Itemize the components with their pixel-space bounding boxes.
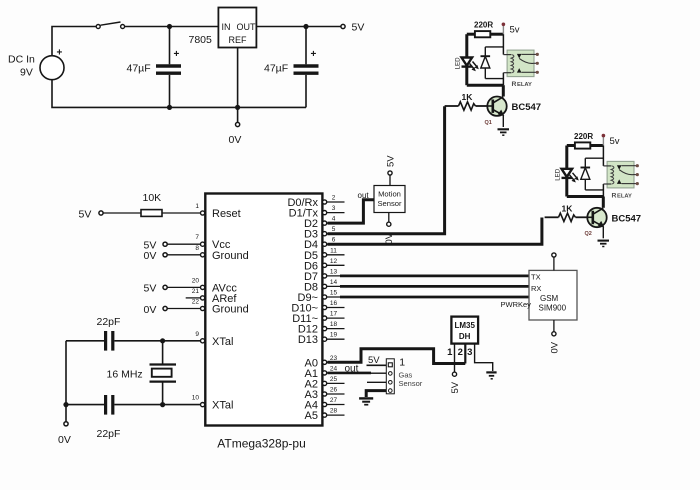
pin 19 D13 (298, 332, 345, 347)
resistor R1 10K (103, 192, 200, 216)
wire collector node (567, 184, 604, 208)
svg-text:D13: D13 (298, 334, 318, 346)
pin 18 D12 (298, 321, 345, 336)
wire (237, 48, 239, 123)
junction (303, 24, 308, 29)
svg-text:0V: 0V (549, 341, 560, 353)
svg-text:REF: REF (229, 35, 248, 45)
svg-text:R: R (612, 193, 617, 200)
wire (125, 26, 219, 28)
svg-text:Motion: Motion (378, 190, 401, 199)
svg-text:0V: 0V (144, 304, 157, 316)
pin 2 D0/Rx (287, 195, 344, 210)
svg-text:7: 7 (195, 234, 199, 241)
wire (66, 404, 104, 406)
svg-text:DC In: DC In (8, 54, 35, 66)
svg-text:2: 2 (458, 347, 463, 358)
switch S1 (96, 22, 124, 29)
junction (160, 338, 165, 343)
svg-text:2: 2 (332, 195, 336, 202)
diode D3 flyback (481, 47, 504, 79)
svg-text:23: 23 (330, 355, 338, 362)
pin 4 D2 (304, 216, 345, 231)
wire pin4 to ground (366, 391, 386, 397)
wire (65, 341, 67, 405)
svg-text:20: 20 (192, 277, 200, 284)
pin 20 AVcc (192, 277, 238, 294)
label RELAY (612, 193, 633, 200)
wire (167, 308, 200, 310)
svg-text:22pF: 22pF (97, 316, 121, 328)
terminal 0V (229, 122, 242, 146)
pin 27 A4 (305, 397, 345, 412)
diode D4 flyback (581, 158, 604, 190)
wire (256, 26, 340, 28)
regulator U1 7805 (189, 8, 257, 48)
label RELAY (512, 81, 533, 88)
supply 5v (502, 23, 520, 36)
terminal 0V (144, 250, 168, 262)
svg-text:+: + (57, 48, 63, 59)
relay K2 (603, 161, 639, 188)
svg-text:1: 1 (195, 203, 199, 210)
pin 9 XTal (195, 331, 233, 348)
pin 5 D3 (304, 226, 345, 241)
source V1 DC In 9V (8, 48, 64, 80)
junction (235, 105, 240, 110)
svg-text:4: 4 (332, 216, 336, 223)
svg-text:0V: 0V (384, 232, 395, 244)
svg-text:18: 18 (330, 321, 338, 328)
label BC547 (612, 213, 642, 224)
svg-text:Sensor: Sensor (377, 199, 402, 208)
svg-text:5V: 5V (352, 22, 365, 34)
svg-text:26: 26 (330, 387, 338, 394)
svg-text:A5: A5 (305, 410, 318, 422)
svg-text:220R: 220R (474, 21, 493, 30)
supply 5v (602, 134, 620, 147)
relay K1 (503, 50, 539, 77)
svg-text:BC547: BC547 (512, 102, 542, 113)
label 5V (367, 355, 387, 366)
wire (66, 340, 104, 342)
pin 24 A1 (305, 365, 345, 380)
svg-text:ELAY: ELAY (517, 82, 532, 88)
label out (345, 363, 359, 374)
terminal 0V GSM (549, 320, 560, 354)
pin 11 D5 (304, 247, 345, 261)
sensor module motion sensor (374, 186, 405, 213)
wire pin3 stub (367, 381, 386, 383)
label BC547 (512, 102, 542, 113)
wire D8 to GSM RX (340, 285, 529, 288)
svg-text:PWRKey: PWRKey (501, 300, 532, 309)
svg-text:47µF: 47µF (264, 63, 288, 75)
wire (167, 254, 200, 256)
svg-text:+: + (174, 49, 180, 60)
wire A0 to LM35 Vout (328, 349, 466, 364)
svg-text:19: 19 (330, 332, 338, 339)
svg-text:13: 13 (330, 268, 338, 275)
svg-text:0V: 0V (229, 134, 242, 146)
svg-text:16: 16 (330, 300, 338, 307)
capacitor C1 47uF (127, 27, 182, 108)
svg-text:9V: 9V (20, 67, 33, 79)
svg-text:Reset: Reset (212, 208, 241, 220)
terminal 0V motion (384, 213, 395, 245)
svg-text:16 MHz: 16 MHz (107, 369, 143, 381)
LED D2 (555, 146, 579, 197)
svg-text:BC547: BC547 (612, 213, 642, 224)
svg-text:RX: RX (531, 284, 541, 293)
svg-text:R: R (512, 81, 517, 88)
capacitor C4 22pF (97, 395, 121, 440)
terminal 5V (341, 22, 364, 34)
svg-text:10K: 10K (143, 192, 162, 204)
wire (114, 404, 200, 406)
svg-text:DH: DH (459, 332, 471, 341)
wire D9 to GSM PWRKey (340, 296, 529, 299)
pin 13 D7 (304, 268, 345, 283)
terminal 5V (144, 240, 168, 252)
wire 5v rail (502, 34, 504, 54)
svg-text:220R: 220R (574, 132, 593, 141)
svg-text:out: out (358, 191, 370, 200)
svg-text:ATmega328p-pu: ATmega328p-pu (217, 437, 306, 451)
svg-text:GSM: GSM (540, 294, 559, 303)
svg-text:0V: 0V (58, 434, 71, 446)
label Q1 (485, 120, 492, 126)
wire LM35 pin3 to ground (475, 344, 493, 371)
svg-text:5v: 5v (610, 136, 620, 147)
svg-text:+: + (311, 49, 317, 60)
svg-text:22: 22 (192, 299, 200, 306)
svg-text:LED: LED (455, 57, 462, 70)
pin 23 A0 (305, 355, 345, 370)
svg-text:27: 27 (330, 397, 338, 404)
wire (167, 243, 200, 245)
svg-text:XTal: XTal (212, 400, 233, 412)
svg-text:1K: 1K (562, 203, 574, 213)
pin 22 Ground (192, 299, 249, 316)
terminal 5V motion (385, 155, 396, 186)
label Gas Sensor (399, 371, 423, 388)
svg-text:1K: 1K (462, 92, 474, 102)
svg-text:XTal: XTal (212, 336, 233, 348)
junction (63, 402, 68, 407)
LED D1 (455, 34, 479, 85)
svg-text:10: 10 (192, 395, 200, 402)
svg-text:47µF: 47µF (127, 63, 151, 75)
svg-text:24: 24 (330, 365, 338, 372)
wire D3 to Q1 base (328, 106, 445, 234)
pin 16 D10~ (291, 300, 344, 315)
svg-text:11: 11 (330, 247, 337, 254)
pin 21 ARef (192, 288, 238, 305)
wire (167, 286, 200, 288)
ground (486, 372, 496, 378)
pin 10 XTal (192, 395, 234, 412)
terminal 0V (144, 304, 168, 316)
label Q2 (585, 231, 592, 237)
resistor R4 1K (445, 92, 488, 110)
resistor R6 1K (545, 203, 588, 221)
junction (167, 105, 172, 110)
svg-text:Q1: Q1 (485, 120, 492, 126)
svg-text:21: 21 (192, 288, 200, 295)
wire LM35 pin1 (454, 344, 456, 373)
svg-text:5V: 5V (79, 209, 92, 221)
svg-text:28: 28 (330, 408, 338, 415)
terminal 5V (79, 209, 104, 221)
svg-text:12: 12 (330, 258, 338, 265)
svg-text:17: 17 (330, 311, 338, 318)
svg-text:1: 1 (399, 356, 405, 368)
pin 6 D4 (304, 237, 345, 252)
svg-text:3: 3 (467, 347, 472, 358)
svg-text:14: 14 (330, 279, 338, 286)
wire (186, 297, 201, 299)
resistor R3 220R (467, 21, 504, 38)
module U4 GSM SIM900 (529, 270, 577, 320)
wire A1 to gas sensor (328, 372, 387, 375)
svg-text:5V: 5V (144, 283, 157, 295)
pin 17 D11~ (292, 311, 344, 326)
wire collector node (467, 73, 504, 97)
wire D4 to Q2 base (328, 218, 542, 245)
svg-text:25: 25 (330, 376, 338, 383)
svg-text:0V: 0V (144, 250, 157, 262)
wire (65, 405, 67, 422)
resistor R5 220R (567, 132, 604, 149)
wire D7 to GSM TX (340, 274, 529, 277)
svg-text:3: 3 (332, 205, 336, 212)
svg-text:IN: IN (222, 22, 231, 32)
label PWRKey (501, 300, 532, 309)
junction (167, 24, 172, 29)
svg-text:5V: 5V (385, 155, 396, 167)
junction (160, 402, 165, 407)
pin 14 D8 (304, 279, 345, 294)
pin 15 D9~ (298, 290, 345, 305)
pin 8 Ground (195, 245, 248, 262)
pin 3 D1/Tx (289, 205, 345, 220)
ground (598, 241, 610, 247)
terminal 5V LM35 (450, 372, 461, 393)
svg-text:5: 5 (332, 226, 336, 233)
svg-text:LM35: LM35 (454, 321, 475, 330)
capacitor C2 47uF (264, 27, 319, 108)
wire (52, 80, 306, 108)
terminal 0V (58, 422, 71, 446)
pin 26 A3 (305, 387, 345, 402)
pin 1 Reset (195, 203, 240, 220)
transistor Q2 BC547 (587, 208, 606, 239)
terminal GSM top (552, 253, 556, 271)
IC U2 ATmega328p-pu (205, 194, 322, 426)
wire 5v rail (602, 146, 604, 166)
pin 25 A2 (305, 376, 345, 391)
pin 28 A5 (305, 408, 345, 423)
svg-text:TX: TX (531, 272, 541, 281)
crystal X1 16 MHz (107, 341, 177, 405)
label pins 1 2 3 (447, 347, 472, 358)
label ATmega328p-pu (217, 437, 306, 451)
svg-text:SIM900: SIM900 (539, 303, 567, 312)
svg-text:7805: 7805 (189, 34, 213, 46)
pin 12 D6 (304, 258, 345, 273)
ground (498, 129, 510, 135)
wire (114, 340, 200, 342)
svg-text:Sensor: Sensor (399, 379, 423, 388)
svg-text:6: 6 (332, 237, 336, 244)
connector J1 gas sensor (386, 359, 394, 394)
svg-text:22pF: 22pF (97, 428, 121, 440)
label 1 (399, 356, 405, 368)
svg-text:15: 15 (330, 290, 338, 297)
pin 7 Vcc (195, 234, 230, 251)
wire LM35 pin2 (464, 344, 466, 364)
svg-text:9: 9 (195, 331, 199, 338)
ground (359, 398, 373, 404)
capacitor C3 22pF (97, 316, 121, 351)
svg-text:1: 1 (447, 347, 453, 358)
svg-text:5V: 5V (450, 381, 461, 393)
svg-text:ELAY: ELAY (617, 194, 632, 200)
svg-text:LED: LED (555, 168, 562, 181)
svg-text:Ground: Ground (212, 304, 249, 316)
svg-text:Q2: Q2 (585, 231, 592, 237)
svg-text:OUT: OUT (237, 22, 257, 32)
terminal 5V (144, 283, 168, 295)
label out (358, 191, 370, 200)
sensor U3 LM35 DH (451, 317, 478, 344)
svg-text:Ground: Ground (212, 250, 249, 262)
transistor Q1 BC547 (487, 97, 506, 128)
svg-text:5v: 5v (510, 25, 520, 36)
svg-text:8: 8 (195, 245, 199, 252)
wire D2 to motion sensor out (328, 200, 375, 223)
wire (52, 27, 96, 56)
